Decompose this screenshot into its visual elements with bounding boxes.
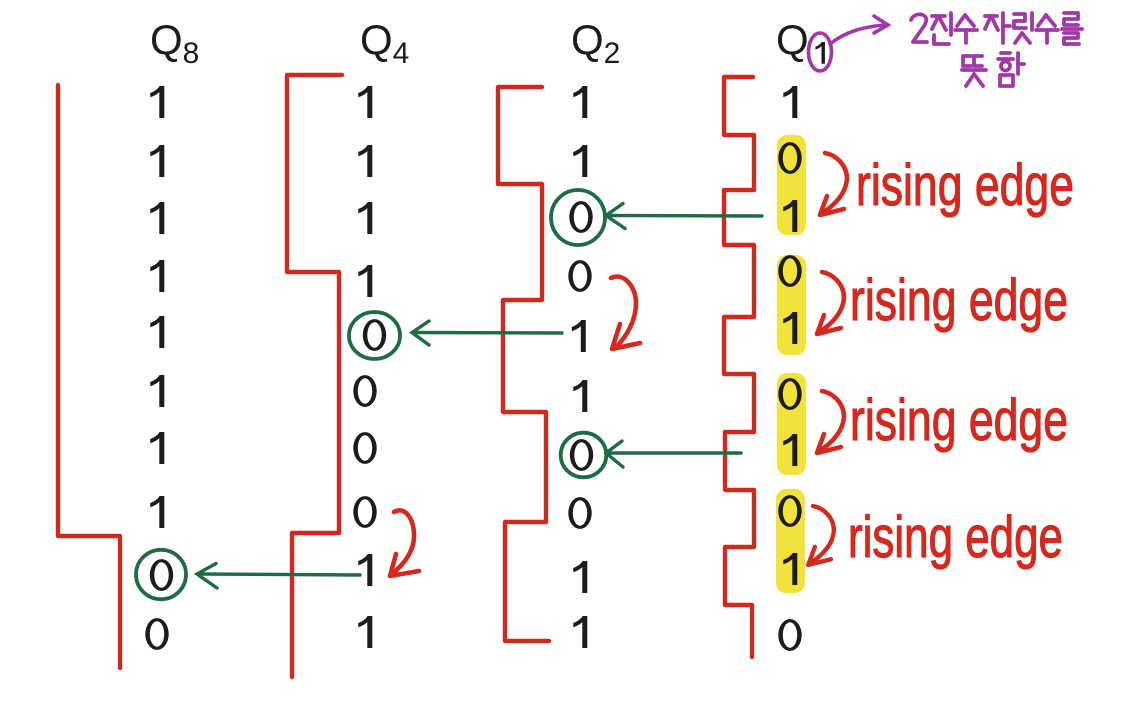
svg-text:Q: Q (776, 16, 809, 63)
red hook arrow Q4 rows8-9 (390, 510, 419, 576)
glyph ja (985, 13, 1010, 43)
yellow highlight Q1 rows 4-5 (777, 255, 806, 355)
green arrow from Q2 row5 to Q4 circle (412, 321, 562, 345)
svg-text:rising edge: rising edge (856, 153, 1074, 218)
svg-text:rising edge: rising edge (850, 388, 1068, 453)
korean note line2: 뜻함 (962, 53, 1024, 86)
svg-text:rising edge: rising edge (850, 268, 1068, 333)
red hook arrow rising edge 2 (817, 272, 844, 334)
digits column Q4 (353, 86, 386, 648)
digits column Q8 (145, 86, 173, 650)
yellow highlight Q1 rows 8-9 (776, 489, 805, 593)
digits column Q2 (568, 86, 593, 648)
svg-text:rising edge: rising edge (848, 505, 1063, 570)
glyph jin (932, 13, 951, 44)
glyph rit (1014, 13, 1032, 43)
glyph tteut (962, 56, 986, 86)
green circle on Q2 row7 zero (561, 433, 607, 478)
digits column Q1 (778, 86, 801, 651)
purple ellipse around Q1 subscript (809, 33, 832, 71)
waveform Q4 (287, 75, 342, 677)
red hook arrow rising edge 3 (817, 391, 844, 453)
green circle on Q4 row5 zero (349, 312, 400, 359)
korean note line1: 2진수 자릿수를 (911, 13, 1082, 44)
green arrow from Q4 row9 to Q8 circle (197, 564, 360, 589)
svg-text:Q2: Q2 (571, 16, 620, 70)
svg-text:Q4: Q4 (360, 16, 409, 70)
green circle on Q2 row3 zero (551, 190, 605, 245)
glyph su (955, 15, 977, 43)
header Q1 subscript 1 (815, 42, 825, 64)
svg-text:Q8: Q8 (150, 16, 199, 70)
green arrow from Q1 row3 to Q2 circle (606, 204, 762, 229)
red hook arrow rising edge 4 (808, 506, 834, 565)
red hook arrow Q2 rows4-5 (611, 277, 640, 349)
red hook arrow rising edge 1 (820, 153, 847, 215)
glyph ham (998, 53, 1024, 86)
purple arrow to korean note (830, 16, 888, 44)
yellow highlight Q1 rows 2-3 (777, 135, 806, 235)
waveform Q1 (724, 77, 754, 657)
waveform Q8 (58, 85, 120, 668)
green arrow from Q1 row7 to Q2 circle (606, 441, 741, 467)
glyph reul (1062, 13, 1082, 44)
waveform Q2 (498, 87, 549, 641)
glyph su2 (1036, 15, 1058, 43)
yellow highlight Q1 rows 6-7 (777, 373, 806, 475)
green circle on Q8 row9 zero (136, 550, 186, 599)
glyph 2 (911, 14, 927, 42)
